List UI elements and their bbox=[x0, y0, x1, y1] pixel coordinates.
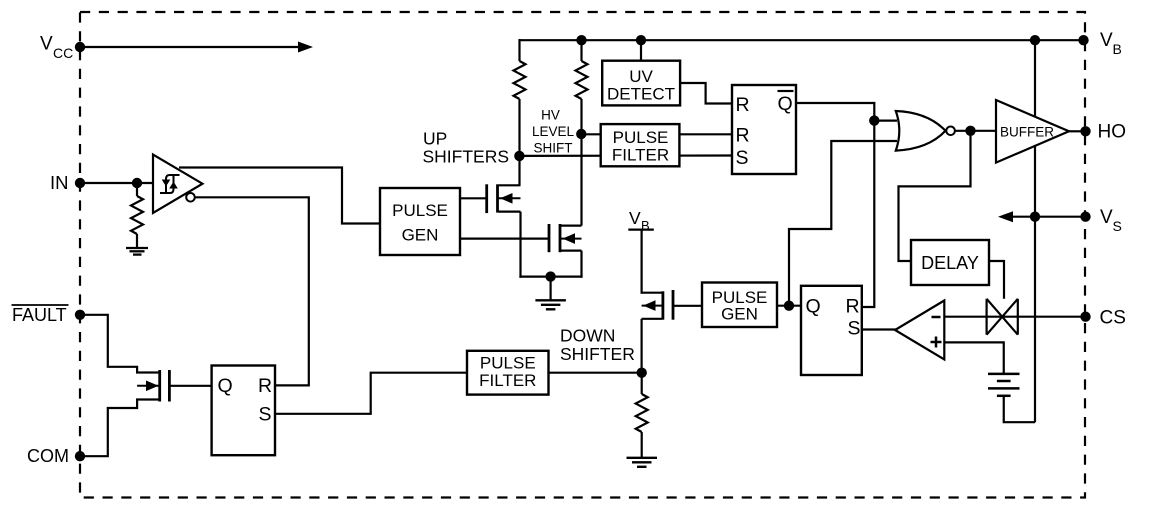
wire rail1 to up shifters node bbox=[518, 99, 520, 185]
latch U6 current limit RS latch box bbox=[801, 286, 862, 375]
node COM terminal dot bbox=[75, 451, 85, 461]
wire schmitt inverted output down to fault latch R bbox=[195, 197, 309, 385]
wire rail1 upper lead bbox=[518, 39, 520, 61]
wire ground lead bbox=[549, 277, 551, 300]
block UV DETECT bbox=[602, 61, 680, 106]
wire rail2 lower segment to source line bbox=[580, 251, 582, 278]
resistor R2 up shifter left bbox=[514, 61, 526, 99]
wire NOR upper input bbox=[874, 119, 897, 121]
transistor Q4 down shifter drain stub bbox=[642, 292, 662, 294]
VS arrow to left bbox=[1009, 216, 1035, 218]
transistor Q2 up shifter gate bar bbox=[548, 224, 551, 252]
svg-text:R: R bbox=[736, 94, 750, 116]
transistor Q1 channel bar bbox=[496, 184, 499, 212]
node Qbar NOR junction bbox=[869, 115, 879, 125]
battery reference V1 bbox=[988, 374, 1020, 396]
svg-text:COM: COM bbox=[27, 446, 69, 466]
wire comparator plus input to battery bbox=[944, 342, 1003, 373]
svg-text:R: R bbox=[736, 125, 750, 147]
label HV LEVEL SHIFT bbox=[532, 108, 575, 156]
block PULSE FILTER upper bbox=[601, 124, 680, 166]
wire VB top rail bbox=[520, 39, 1084, 41]
node VS terminal dot bbox=[1080, 212, 1090, 222]
svg-text:V: V bbox=[1100, 30, 1113, 51]
svg-text:PULSE: PULSE bbox=[392, 201, 448, 220]
wire U2 S output to pulse filter bbox=[275, 373, 467, 414]
gate U4 NOR bbox=[896, 111, 946, 151]
block PULSE FILTER lower bbox=[467, 351, 549, 395]
block PULSE GEN lower bbox=[702, 283, 777, 328]
transistor Q4 lower stub bbox=[642, 318, 662, 320]
transistor Q3 fault open-drain channel bar bbox=[158, 370, 161, 402]
resistor R4 down shifter bbox=[636, 394, 648, 432]
svg-text:BUFFER: BUFFER bbox=[1000, 124, 1054, 139]
svg-text:S: S bbox=[848, 318, 861, 340]
svg-text:GEN: GEN bbox=[402, 226, 439, 245]
wire down resistor top lead bbox=[641, 373, 643, 394]
svg-text:V: V bbox=[629, 208, 641, 228]
node down shifter source junction bbox=[637, 368, 647, 378]
node HV level shift junction bbox=[576, 129, 586, 139]
wire rail1 lower segment to source line bbox=[519, 212, 521, 278]
node UP SHIFTERS junction bbox=[514, 151, 524, 161]
svg-text:SHIFTER: SHIFTER bbox=[560, 344, 635, 364]
terminal VS label bbox=[1100, 207, 1122, 234]
wire latch2 S from comparator output bbox=[862, 328, 896, 330]
svg-text:SHIFTERS: SHIFTERS bbox=[423, 147, 510, 167]
svg-text:UP: UP bbox=[423, 129, 447, 149]
svg-text:HO: HO bbox=[1098, 122, 1127, 143]
wire VCC arrow line bbox=[80, 46, 302, 48]
svg-text:FILTER: FILTER bbox=[479, 371, 536, 390]
transistor Q2 source arrow stub bbox=[561, 238, 582, 240]
transistor Q4 source arrow stub bbox=[642, 305, 662, 307]
buffer U5 triangle bbox=[996, 100, 1069, 163]
svg-text:CC: CC bbox=[53, 45, 73, 61]
svg-text:PULSE: PULSE bbox=[480, 354, 536, 373]
terminal VB label bbox=[1100, 30, 1122, 57]
node VS rail junction bbox=[1030, 212, 1040, 222]
wire schmitt top output to pulse gen bbox=[179, 168, 380, 224]
latch U2 pin labels bbox=[218, 375, 273, 426]
wire battery negative to VS rail bbox=[1004, 396, 1035, 422]
node UV rail dot bbox=[636, 35, 646, 45]
wire feedback NOR output to delay bbox=[899, 131, 971, 261]
svg-text:S: S bbox=[736, 147, 749, 169]
transistor Q2 channel bar bbox=[559, 224, 562, 252]
svg-text:UV: UV bbox=[629, 67, 653, 86]
wire resistor top lead bbox=[136, 183, 138, 196]
wire common source line bbox=[519, 276, 582, 278]
label UP SHIFTERS bbox=[423, 129, 510, 167]
latch U3 pin labels bbox=[736, 93, 793, 169]
wire rail2 upper lead bbox=[580, 39, 582, 61]
node CS terminal dot bbox=[1080, 312, 1090, 322]
svg-text:Q: Q bbox=[218, 375, 233, 397]
hysteresis symbol inside U1 bbox=[160, 175, 180, 193]
wire pulse gen to Q2 gate bbox=[460, 238, 549, 240]
svg-text:GEN: GEN bbox=[721, 305, 758, 324]
wire delay output to blanking switch bbox=[989, 261, 1004, 299]
transistor Q4 gate bar bbox=[672, 290, 675, 320]
node NOR output junction bbox=[965, 126, 975, 136]
schmitt output bubble bbox=[186, 193, 195, 202]
svg-text:LEVEL: LEVEL bbox=[532, 124, 575, 139]
svg-text:V: V bbox=[40, 34, 53, 55]
wire Q4 gate from pulse gen2 bbox=[673, 305, 702, 307]
svg-text:S: S bbox=[1113, 218, 1122, 234]
schmitt trigger U1 bbox=[153, 155, 203, 214]
svg-text:CS: CS bbox=[1100, 308, 1126, 329]
svg-text:S: S bbox=[259, 404, 272, 426]
wire VS line bbox=[1035, 216, 1084, 218]
comparator minus sign bbox=[932, 316, 941, 319]
gate U4 output bubble bbox=[946, 127, 955, 136]
node VCC terminal dot bbox=[75, 42, 85, 52]
svg-text:Q: Q bbox=[778, 93, 793, 115]
svg-text:Q: Q bbox=[806, 296, 821, 318]
transistor Q2 lower stub bbox=[561, 250, 582, 252]
svg-text:DETECT: DETECT bbox=[607, 84, 675, 103]
blanking switch bowtie bbox=[987, 299, 1018, 335]
svg-text:R: R bbox=[258, 375, 272, 397]
svg-text:HV: HV bbox=[541, 108, 560, 123]
transistor Q1 source arrow stub bbox=[499, 197, 521, 199]
resistor R1 IN pulldown bbox=[131, 196, 143, 234]
VCC arrowhead bbox=[298, 42, 313, 53]
wire Qbar output to NOR input and latch2 R bbox=[796, 103, 874, 307]
wire NOR output to buffer bbox=[955, 130, 996, 132]
wire NOR lower input from pulse gen2 node bbox=[789, 141, 897, 306]
svg-text:DELAY: DELAY bbox=[921, 253, 979, 273]
wire Q3 gate from fault latch Q bbox=[169, 385, 211, 387]
comparator U7 bbox=[895, 301, 944, 360]
wire FAULT to Q3 drain bbox=[80, 315, 159, 373]
wire buffer output to HO bbox=[1069, 130, 1084, 132]
node FAULT terminal dot bbox=[75, 310, 85, 320]
wire pulse gen2 output to latch2 bbox=[777, 305, 801, 307]
svg-text:B: B bbox=[1113, 41, 1122, 57]
svg-text:R: R bbox=[846, 296, 860, 318]
wire UV detect to VB rail bbox=[640, 40, 642, 61]
comparator plus sign bbox=[931, 337, 942, 348]
wire down resistor bottom lead bbox=[641, 432, 643, 458]
latch U6 pin labels bbox=[806, 296, 861, 340]
wire up shifters node through pulse filter to latch S bbox=[519, 154, 732, 157]
wire pulse filter to down shifter node bbox=[549, 372, 642, 374]
transistor Q3 gate bar bbox=[168, 370, 171, 402]
hysteresis arrowheads bbox=[162, 180, 171, 187]
latch U3 Q overbar bbox=[778, 90, 794, 92]
node HO terminal dot bbox=[1080, 126, 1090, 136]
svg-text:IN: IN bbox=[50, 172, 69, 193]
node IN resistor junction bbox=[132, 178, 142, 188]
wire UV detect output to latch R1 bbox=[680, 83, 732, 104]
transistor Q3 source arrow stub bbox=[137, 385, 158, 387]
wire VB stub to Q4 drain bbox=[640, 230, 642, 294]
label VB stub for down shifter bbox=[629, 208, 650, 233]
transistor Q1 lower stub bbox=[499, 211, 521, 213]
latch U3 high side RS latch box bbox=[732, 85, 796, 174]
node rail top dot bbox=[1030, 35, 1040, 45]
wire Q3 source to COM bbox=[80, 400, 159, 457]
wire pulse gen to Q1 gate bbox=[460, 197, 487, 199]
node source ground junction bbox=[545, 271, 555, 281]
ground below R1 bbox=[126, 248, 148, 255]
node rail2 top dot bbox=[576, 35, 586, 45]
block PULSE GEN upper bbox=[380, 188, 460, 255]
label DOWN SHIFTER bbox=[560, 326, 635, 365]
transistor Q4 channel bar bbox=[662, 291, 665, 319]
latch U2 fault RS latch box bbox=[212, 366, 275, 456]
svg-text:V: V bbox=[1100, 207, 1113, 228]
transistor Q1 drain stub bbox=[499, 184, 521, 186]
wire resistor bottom lead bbox=[136, 234, 138, 248]
svg-text:SHIFT: SHIFT bbox=[534, 141, 573, 156]
svg-text:DOWN: DOWN bbox=[560, 326, 615, 346]
VB stub terminal bar bbox=[628, 229, 654, 231]
wire comparator minus input from CS bbox=[944, 316, 1083, 318]
svg-text:FAULT: FAULT bbox=[12, 305, 67, 325]
ground below up shifters bbox=[535, 300, 566, 309]
wire Q4 source to down shifter node bbox=[640, 319, 642, 373]
svg-text:PULSE: PULSE bbox=[613, 128, 669, 147]
block DELAY bbox=[911, 240, 989, 285]
ground below R4 bbox=[627, 458, 658, 467]
wire IN to schmitt input bbox=[80, 182, 153, 184]
wire VB rail down through buffer to VS and battery bbox=[1034, 40, 1036, 422]
node IN terminal dot bbox=[75, 178, 85, 188]
wire HV node through pulse filter to latch R bbox=[581, 133, 732, 135]
transistor Q1 up shifter gate bar bbox=[485, 184, 488, 213]
wire rail2 to HV node and Q2 drain bbox=[580, 99, 582, 226]
transistor Q2 drain stub bbox=[561, 225, 582, 227]
node pulse gen2 output junction bbox=[784, 301, 794, 311]
node VB terminal dot bbox=[1078, 35, 1088, 45]
terminal VCC label bbox=[40, 34, 73, 62]
resistor R3 up shifter right bbox=[576, 61, 588, 99]
svg-text:FILTER: FILTER bbox=[612, 146, 669, 165]
terminal FAULT label with overline bbox=[12, 305, 69, 325]
